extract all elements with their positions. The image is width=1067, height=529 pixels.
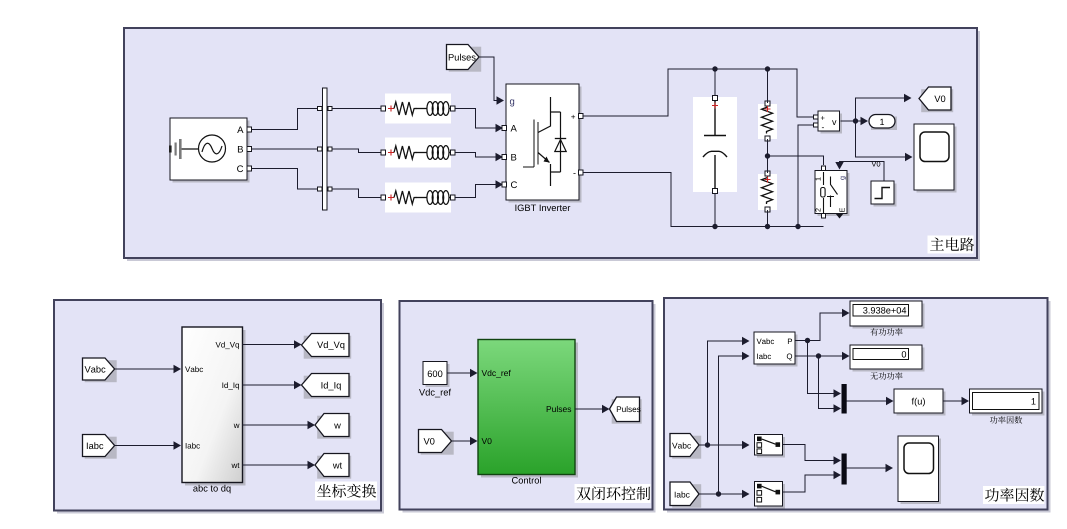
resistor chain top R: [758, 104, 777, 139]
wire Iabc junction: [699, 493, 743, 495]
wire mux1 to fu: [847, 400, 887, 402]
wire bus to RL branch C: [332, 189, 383, 198]
wire DC+: [583, 69, 814, 117]
label 坐标变换: [315, 482, 377, 501]
label 功率因数 big: [983, 486, 1045, 504]
wire sel2 to mux2: [783, 475, 836, 492]
IGBT Inverter block: [509, 87, 582, 203]
IGBT antiparallel diode: [551, 112, 561, 172]
wire DC-: [583, 173, 824, 227]
wire Iabc to block: [115, 445, 175, 447]
abc to dq block: [185, 330, 246, 486]
step block: [874, 184, 897, 207]
wire Pulses to inverter g: [479, 57, 497, 101]
wire Vd_Vq out: [243, 344, 296, 346]
Goto tag V0: [921, 89, 953, 112]
mux2: [842, 454, 847, 485]
Goto tag Vd_Vq: [304, 336, 352, 359]
wire mux2 to scope: [847, 467, 887, 469]
wires resistor chain: [767, 69, 769, 103]
From tag V0 (control): [421, 432, 454, 455]
Goto tag Pulses: [612, 399, 642, 424]
wire to V0 tag: [856, 98, 906, 121]
selector block 1: [757, 437, 785, 458]
Goto tag w: [317, 416, 351, 439]
wire RL B to inverter B: [455, 153, 496, 158]
scope main: [917, 127, 957, 193]
selector block 2: [757, 484, 785, 509]
voltage measurement block: [821, 114, 843, 134]
bus bar: [323, 88, 328, 210]
breaker icon: [823, 172, 825, 185]
f(u) block: [897, 392, 946, 416]
capacitor branch: [693, 97, 737, 192]
panel double loop control 双闭环控制: [403, 304, 656, 513]
wire Q to mux1: [819, 356, 836, 409]
Goto tag wt: [317, 456, 351, 479]
wire bus to RL branch B: [332, 149, 383, 153]
wire bus to RL branch A: [332, 108, 383, 110]
RL branch C: [385, 183, 451, 213]
wire w out: [243, 424, 309, 426]
From tag Pulses: [449, 47, 482, 72]
scope pf: [901, 439, 942, 505]
wire RL C to inverter C: [455, 185, 496, 198]
wire fu to display3: [943, 400, 963, 402]
From tag Iabc: [85, 437, 117, 459]
From tag Iabc (pf): [672, 484, 701, 508]
junction dots DC+: [712, 66, 717, 71]
wire Vabc junction: [699, 444, 743, 446]
label 主电路: [928, 236, 974, 254]
wire Id_Iq out: [243, 384, 296, 386]
wire mid junction to breaker: [768, 156, 824, 165]
wire RL A to inverter A: [455, 109, 496, 129]
label 双闭环控制: [575, 484, 651, 503]
Goto tag Id_Iq: [304, 376, 352, 399]
wire P to mux1: [808, 341, 836, 394]
wire step to breaker g: [840, 162, 885, 182]
source ports A B C: [247, 127, 252, 132]
mux1: [842, 384, 847, 414]
label 有功功率: [870, 328, 878, 336]
RL branch A: [385, 94, 451, 124]
wire v output: [841, 120, 856, 122]
RL branch B: [385, 138, 451, 168]
label 无功功率: [870, 372, 878, 379]
display power factor: [972, 392, 1045, 416]
breaker block: [818, 173, 850, 216]
wire sel1 to mux2: [783, 445, 836, 461]
From tag Vabc: [85, 360, 117, 382]
wire Vmeas minus down: [798, 125, 814, 227]
oval gain 1: [871, 117, 897, 131]
source ground symbol: [175, 143, 177, 156]
wire source C to bus: [252, 169, 319, 190]
wire to scope: [856, 121, 907, 157]
wire source B to bus: [252, 148, 319, 150]
constant 600: [426, 364, 450, 387]
label 功率因数 small: [990, 416, 998, 423]
three-phase source block: [173, 121, 250, 183]
resistor chain bottom R: [758, 174, 777, 210]
wire Vabc to block: [115, 368, 175, 370]
wire wt out: [243, 464, 309, 466]
wire source A to bus: [252, 109, 319, 130]
wire P to display1: [796, 313, 844, 341]
Control block (green): [481, 343, 578, 478]
display reactive power: [853, 348, 925, 372]
wire Pulses out: [575, 408, 603, 410]
IGBT symbol: [533, 120, 535, 168]
wire to oval 1: [861, 117, 869, 125]
PQ measurement block: [757, 335, 798, 367]
wire 600 to control: [447, 372, 471, 374]
display active power: [853, 304, 925, 329]
From tag Vabc (pf): [672, 436, 701, 459]
panel coordinate transform 坐标变换: [57, 303, 384, 514]
wire Q to display2: [796, 355, 844, 357]
panel main circuit 主电路: [127, 31, 980, 261]
wire V0 to control: [452, 440, 472, 442]
panel power factor 功率因数: [667, 301, 1051, 513]
